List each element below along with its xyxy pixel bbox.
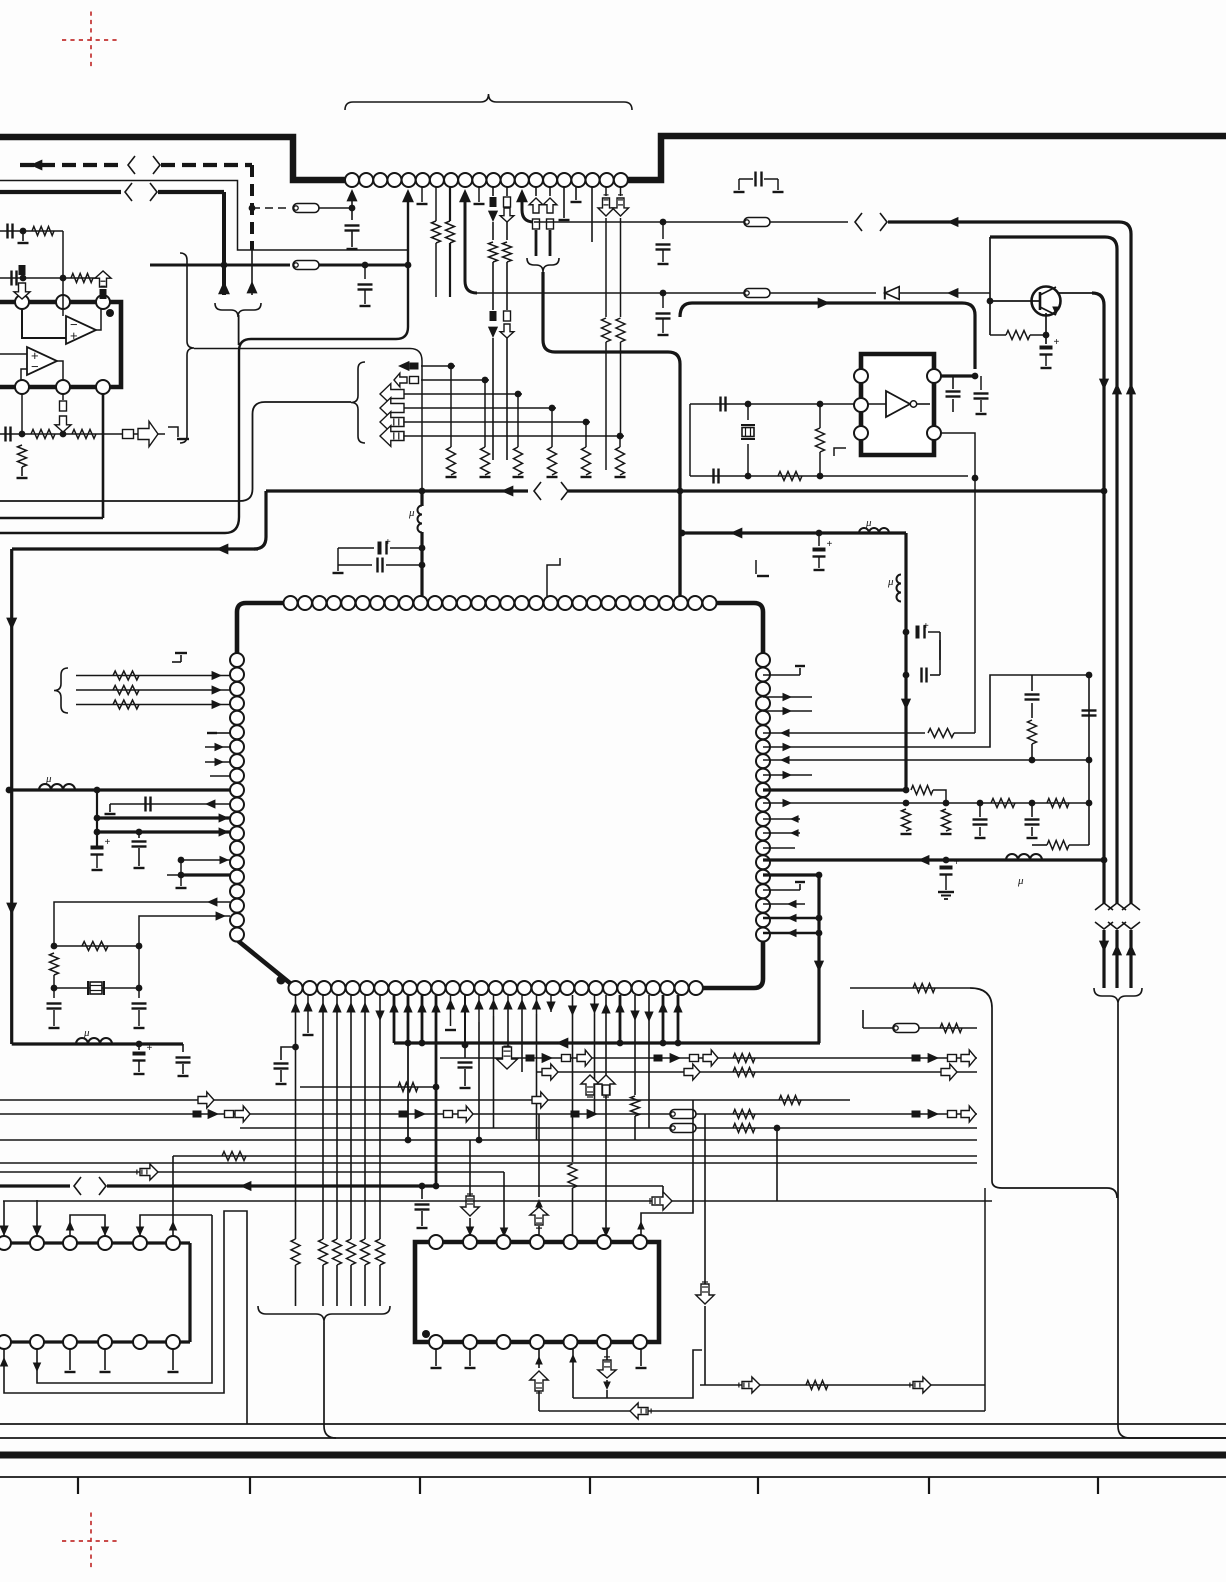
svg-text:+: + [954, 857, 960, 868]
svg-text:+: + [105, 837, 111, 848]
svg-text:μ: μ [887, 576, 894, 588]
svg-text:+: + [923, 621, 929, 632]
svg-text:+: + [1054, 337, 1060, 348]
svg-text:μ: μ [1017, 875, 1024, 887]
svg-text:+: + [70, 328, 78, 343]
svg-text:+: + [147, 1043, 153, 1054]
svg-text:+: + [827, 539, 833, 550]
svg-text:−: − [31, 359, 39, 374]
svg-text:μ: μ [865, 517, 872, 529]
svg-text:μ: μ [83, 1027, 90, 1039]
svg-text:+: + [385, 537, 391, 548]
svg-text:μ: μ [45, 773, 52, 785]
svg-text:μ: μ [408, 507, 415, 519]
